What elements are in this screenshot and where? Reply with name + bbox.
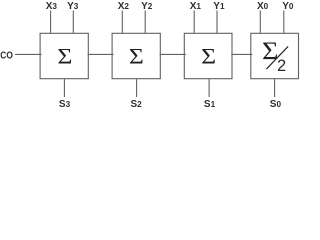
- half adder fraction slash: [266, 46, 288, 69]
- full adder U2 box: [112, 33, 160, 78]
- svg-text:S2: S2: [131, 99, 143, 109]
- wire Y2 input: [144, 11, 146, 34]
- svg-text:X3: X3: [46, 1, 58, 12]
- svg-text:S1: S1: [204, 99, 216, 109]
- wire carry C2: [160, 53, 186, 55]
- svg-text:Σ: Σ: [262, 36, 278, 64]
- wire S0 output: [274, 79, 276, 97]
- svg-text:X2: X2: [118, 1, 130, 12]
- wire Y0 input: [283, 11, 285, 34]
- half adder U0 box: [251, 33, 299, 78]
- wire Y3 input: [72, 11, 74, 34]
- svg-text:Σ: Σ: [57, 45, 72, 69]
- wire S1 output: [208, 79, 210, 97]
- wire CO: [15, 53, 42, 55]
- svg-text:S0: S0: [270, 99, 282, 109]
- wire Y1 input: [216, 11, 218, 34]
- svg-text:Y1: Y1: [213, 1, 225, 12]
- svg-text:Σ: Σ: [129, 45, 144, 69]
- wire carry C1: [231, 53, 252, 55]
- full adder U1 box: [184, 33, 232, 78]
- wire X0 input: [259, 11, 261, 34]
- svg-text:Y0: Y0: [282, 1, 294, 12]
- wire carry C3 (U0 to U1... U2 to U3): [88, 53, 114, 55]
- svg-text:2: 2: [277, 57, 286, 75]
- wire X3 input: [50, 11, 52, 34]
- wire S2 output: [136, 79, 138, 97]
- full adder U3 box: [40, 33, 88, 78]
- svg-text:Y3: Y3: [67, 1, 79, 12]
- svg-text:Y2: Y2: [141, 1, 153, 12]
- wire X1 input: [193, 11, 195, 34]
- wire S3 output: [63, 79, 65, 97]
- svg-text:X1: X1: [190, 1, 202, 12]
- svg-text:X0: X0: [257, 1, 269, 12]
- svg-text:Σ: Σ: [201, 45, 216, 69]
- wire X2 input: [121, 11, 123, 34]
- svg-text:S3: S3: [59, 99, 71, 109]
- svg-text:CO: CO: [0, 51, 13, 62]
